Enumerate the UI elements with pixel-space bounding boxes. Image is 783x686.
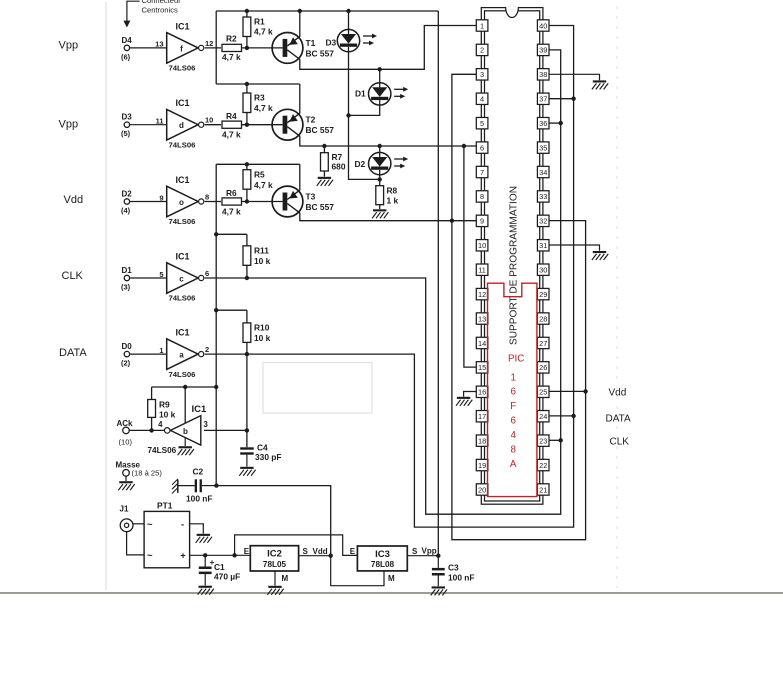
svg-text:4,7 k: 4,7 k — [254, 180, 273, 190]
inverter IC1f — [155, 21, 213, 72]
ground IC1b — [178, 438, 194, 455]
svg-text:Vdd: Vdd — [313, 547, 328, 556]
svg-text:(10): (10) — [119, 438, 133, 447]
svg-text:(3): (3) — [121, 283, 131, 292]
svg-text:R5: R5 — [254, 170, 265, 180]
socket pin 14 — [476, 337, 488, 348]
svg-text:C3: C3 — [448, 563, 459, 573]
wire pin16 to ground — [464, 392, 477, 397]
wire IC3 E feed — [235, 535, 358, 556]
svg-text:b: b — [183, 427, 188, 436]
socket pin 23 — [537, 435, 549, 446]
svg-text:M: M — [282, 574, 289, 583]
svg-text:SUPPORT DE PROGRAMMATION: SUPPORT DE PROGRAMMATION — [509, 186, 520, 345]
svg-text:IC3: IC3 — [375, 549, 390, 560]
svg-text:R2: R2 — [226, 34, 237, 44]
wire D3 cathode column — [349, 52, 380, 180]
ground PT1 — [196, 534, 212, 543]
capacitor C4 — [240, 443, 281, 467]
terminal ACk (10) — [117, 419, 165, 447]
wire d-out — [205, 124, 221, 126]
transformer PT1 — [144, 501, 190, 568]
junction — [346, 113, 350, 117]
svg-text:(6): (6) — [121, 52, 131, 61]
svg-text:8: 8 — [480, 192, 484, 201]
wire C2 to Vdd node — [216, 486, 330, 556]
wire D1 cathode — [349, 105, 380, 115]
svg-text:d: d — [179, 121, 184, 130]
svg-text:78L05: 78L05 — [263, 560, 287, 569]
socket pin 40 — [537, 20, 549, 31]
junction — [378, 177, 382, 181]
svg-text:R1: R1 — [254, 17, 265, 27]
svg-text:74LS06: 74LS06 — [169, 140, 196, 149]
junction — [298, 9, 302, 13]
wire pin25 stub — [549, 390, 585, 392]
svg-text:-: - — [181, 519, 184, 530]
ground C3 — [431, 586, 447, 595]
svg-text:30: 30 — [539, 266, 547, 275]
wire o-out — [205, 201, 221, 203]
label CLK right — [610, 437, 630, 448]
page right faint divider (decorative) — [616, 6, 618, 588]
label PIC char 6 — [510, 416, 516, 427]
svg-text:1 k: 1 k — [387, 196, 399, 206]
junction — [571, 97, 575, 101]
socket pin 33 — [537, 191, 549, 202]
ground pin38 — [592, 80, 608, 89]
wire T2 emitter to d-rail — [299, 84, 301, 113]
socket pin 20 — [476, 484, 488, 495]
svg-text:23: 23 — [539, 436, 547, 445]
wire T1 emitter to top rail — [299, 11, 301, 37]
svg-text:D4: D4 — [122, 36, 133, 45]
svg-text:3: 3 — [480, 70, 484, 79]
svg-text:D2: D2 — [122, 190, 133, 199]
svg-text:5: 5 — [480, 119, 484, 128]
terminal D2 (4) — [121, 190, 167, 216]
svg-text:11: 11 — [478, 266, 486, 275]
socket pin 12 — [476, 288, 488, 299]
wire Vdd rail vertical — [215, 164, 217, 485]
svg-text:21: 21 — [539, 485, 547, 494]
svg-text:IC1: IC1 — [176, 175, 190, 185]
svg-text:IC2: IC2 — [267, 549, 282, 560]
transistor T3 — [242, 186, 335, 217]
ground Masse — [118, 481, 134, 490]
junction — [203, 553, 207, 557]
svg-text:E: E — [244, 547, 250, 556]
socket pin 7 — [476, 166, 488, 177]
wire pin31 to ground — [549, 245, 599, 251]
junction — [559, 438, 563, 442]
wire o-rail — [216, 163, 300, 165]
node Vpp — [436, 554, 440, 558]
socket pin 6 — [476, 142, 488, 153]
svg-text:(5): (5) — [121, 129, 131, 138]
resistor R2 — [222, 34, 242, 63]
svg-text:o: o — [179, 198, 184, 207]
socket pin 31 — [537, 240, 549, 251]
socket pin 39 — [537, 44, 549, 55]
resistor R8 — [376, 179, 399, 209]
svg-text:M: M — [388, 574, 395, 583]
ground R8 — [372, 209, 388, 218]
svg-text:BC 557: BC 557 — [306, 125, 335, 135]
label Vdd right — [609, 388, 627, 399]
svg-text:25: 25 — [539, 388, 547, 397]
svg-text:100 nF: 100 nF — [448, 573, 475, 583]
wire Vpp riser — [437, 11, 439, 556]
svg-text:Centronics: Centronics — [142, 5, 178, 14]
svg-text:33: 33 — [539, 192, 547, 201]
wire f-out — [205, 47, 221, 49]
junction — [245, 162, 249, 166]
svg-text:IC1: IC1 — [176, 98, 190, 108]
junction — [214, 483, 218, 487]
socket pin 3 — [476, 69, 488, 80]
wire R9 top rail — [152, 386, 217, 388]
svg-text:C1: C1 — [214, 562, 225, 572]
svg-text:PT1: PT1 — [157, 501, 173, 511]
svg-text:10: 10 — [205, 116, 213, 125]
svg-text:4,7 k: 4,7 k — [222, 130, 241, 140]
wire T3 emitter to o-rail — [299, 164, 301, 190]
resistor R4 — [222, 111, 242, 140]
svg-text:36: 36 — [539, 119, 547, 128]
regulator IC2 — [244, 546, 299, 571]
svg-text:3: 3 — [204, 420, 209, 429]
socket pin 32 — [537, 215, 549, 226]
junction — [214, 308, 218, 312]
svg-text:13: 13 — [155, 40, 163, 49]
socket pin 24 — [537, 411, 549, 422]
capacitor C1 — [199, 555, 240, 585]
svg-text:4,7 k: 4,7 k — [222, 207, 241, 217]
inverter IC1d — [156, 98, 214, 149]
svg-text:R7: R7 — [332, 152, 343, 162]
label PIC char 4 — [510, 430, 516, 441]
label Vdd (row D2) — [64, 194, 84, 206]
svg-text:S: S — [303, 547, 309, 556]
svg-text:18: 18 — [478, 436, 486, 445]
PIC 16F648A outline — [488, 283, 537, 496]
junction — [245, 82, 249, 86]
wire T2 collector rail to pin 6 — [300, 136, 477, 146]
wire pin37 stub — [549, 98, 573, 100]
socket SUPPORT DE PROGRAMMATION body — [481, 7, 543, 504]
socket pin 35 — [537, 142, 549, 153]
ground IC2 — [267, 586, 283, 595]
junction — [322, 144, 326, 148]
connector J1 — [120, 505, 145, 555]
svg-text:4: 4 — [480, 95, 484, 104]
svg-text:+: + — [180, 551, 186, 562]
svg-text:470 µF: 470 µF — [214, 572, 240, 582]
socket pin 4 — [476, 93, 488, 104]
svg-text:14: 14 — [478, 339, 486, 348]
svg-text:Vdd: Vdd — [609, 388, 627, 399]
junction — [378, 67, 382, 71]
transistor T1 — [242, 33, 335, 64]
socket pin 22 — [537, 459, 549, 470]
socket pin 21 — [537, 484, 549, 495]
svg-text:R11: R11 — [254, 246, 269, 256]
junction — [232, 553, 236, 557]
regulator IC3 — [357, 546, 407, 571]
wire D2 cathode — [379, 175, 381, 180]
svg-text:20: 20 — [478, 485, 486, 494]
svg-text:ACk: ACk — [117, 419, 134, 428]
wire R11 feed — [216, 233, 247, 235]
svg-text:~: ~ — [147, 551, 153, 562]
resistor R1 — [243, 11, 273, 48]
svg-text:f: f — [180, 44, 183, 53]
wire Vdd net pins 3-9-25-32 — [452, 74, 586, 539]
svg-text:12: 12 — [205, 39, 213, 48]
svg-text:74LS06: 74LS06 — [169, 370, 196, 379]
svg-text:32: 32 — [539, 217, 547, 226]
junction — [149, 428, 153, 432]
socket pin 10 — [476, 240, 488, 251]
junction — [245, 46, 249, 50]
socket pin 2 — [476, 44, 488, 55]
svg-text:T1: T1 — [306, 38, 316, 48]
svg-text:28: 28 — [539, 314, 547, 323]
label Vpp (row D3) — [59, 119, 79, 131]
terminal Masse (18 a 25) — [116, 460, 163, 481]
ground pin31 — [592, 251, 608, 260]
wire pin23 stub — [549, 439, 560, 441]
wire CLK from IC1c to pins — [205, 50, 561, 514]
svg-text:74LS06: 74LS06 — [169, 294, 196, 303]
wire T3 collector rail to pin 9 — [300, 213, 477, 221]
inverter IC1o — [159, 175, 209, 226]
resistor R9 — [148, 387, 176, 430]
svg-text:78L08: 78L08 — [371, 560, 395, 569]
svg-text:1: 1 — [510, 372, 515, 383]
svg-text:C2: C2 — [193, 467, 204, 477]
ground C1 — [198, 586, 214, 595]
junction — [378, 144, 382, 148]
svg-text:D1: D1 — [122, 266, 133, 275]
socket pin 26 — [537, 362, 549, 373]
junction — [462, 144, 466, 148]
svg-text:IC1: IC1 — [176, 21, 190, 31]
svg-text:F: F — [510, 401, 516, 412]
socket pin 5 — [476, 117, 488, 128]
wire R10 C4 column — [246, 354, 248, 447]
junction — [214, 232, 218, 236]
svg-text:D3: D3 — [122, 113, 133, 122]
resistor R5 — [243, 164, 273, 201]
LED D2 — [355, 152, 409, 174]
wire IC2 M — [275, 571, 289, 586]
svg-text:(18 à 25): (18 à 25) — [132, 469, 163, 478]
socket pin 8 — [476, 191, 488, 202]
wire D3 top — [348, 11, 350, 29]
svg-text:31: 31 — [539, 241, 547, 250]
wire pin38 to ground — [549, 74, 599, 80]
svg-text:2: 2 — [480, 46, 484, 55]
svg-text:10: 10 — [478, 241, 486, 250]
svg-text:IC1: IC1 — [176, 251, 190, 261]
junction — [245, 352, 249, 356]
terminal D3 (5) — [121, 113, 167, 139]
svg-text:IC1: IC1 — [192, 404, 208, 415]
label DATA right — [606, 414, 632, 425]
wire IC3 M lift — [331, 556, 395, 586]
svg-text:35: 35 — [539, 143, 547, 152]
svg-text:74LS06: 74LS06 — [148, 446, 177, 455]
LED D3 — [326, 29, 378, 51]
svg-text:BC 557: BC 557 — [306, 202, 335, 212]
svg-text:7: 7 — [480, 168, 484, 177]
socket pin 1 — [476, 20, 488, 31]
wire PT1 minus to ground — [190, 524, 204, 534]
svg-text:10 k: 10 k — [159, 410, 176, 420]
svg-text:330 pF: 330 pF — [255, 452, 282, 462]
svg-text:16: 16 — [478, 388, 486, 397]
ground R7 — [317, 177, 333, 186]
socket pin 25 — [537, 386, 549, 397]
junction — [346, 9, 350, 13]
label DATA (row D0) — [59, 347, 87, 359]
svg-text:R3: R3 — [254, 93, 265, 103]
wire IC3 out Vpp — [407, 547, 438, 556]
svg-text:D0: D0 — [122, 342, 133, 351]
capacitor C2 — [172, 467, 216, 504]
svg-text:1: 1 — [480, 21, 484, 30]
svg-text:R4: R4 — [226, 111, 237, 121]
svg-text:19: 19 — [478, 461, 486, 470]
junction — [583, 389, 587, 393]
label PIC char A — [510, 459, 517, 470]
page bottom rule — [0, 592, 783, 594]
socket pin 18 — [476, 435, 488, 446]
wire IC1b vcc stub — [184, 387, 186, 423]
svg-text:D3: D3 — [326, 38, 337, 48]
junction — [245, 9, 249, 13]
svg-text:6: 6 — [510, 416, 516, 427]
resistor R3 — [243, 84, 273, 125]
svg-text:D1: D1 — [355, 89, 366, 99]
svg-text:T2: T2 — [306, 115, 316, 125]
svg-text:9: 9 — [159, 193, 163, 202]
svg-text:(4): (4) — [121, 206, 131, 215]
svg-text:Connecteur: Connecteur — [142, 0, 182, 5]
label PIC char F — [510, 401, 516, 412]
svg-text:6: 6 — [510, 387, 516, 398]
socket pin 11 — [476, 264, 488, 275]
wire left Vpp drop — [215, 11, 217, 84]
capacitor C3 — [432, 556, 475, 587]
svg-text:40: 40 — [539, 21, 547, 30]
inverter IC1c — [159, 251, 209, 302]
svg-text:5: 5 — [159, 270, 163, 279]
svg-text:T3: T3 — [306, 192, 316, 202]
svg-text:(2): (2) — [121, 359, 131, 368]
svg-text:IC1: IC1 — [176, 328, 190, 338]
svg-text:J1: J1 — [120, 505, 129, 514]
svg-text:13: 13 — [478, 314, 486, 323]
svg-text:DATA: DATA — [606, 414, 632, 425]
socket pin 38 — [537, 69, 549, 80]
resistor R6 — [222, 188, 242, 217]
svg-text:A: A — [510, 459, 517, 470]
svg-text:38: 38 — [539, 70, 547, 79]
svg-text:10 k: 10 k — [254, 333, 271, 343]
svg-text:27: 27 — [539, 339, 547, 348]
svg-text:S: S — [412, 547, 418, 556]
wire PT1 plus to IC2 — [190, 554, 251, 556]
wire pin36 stub — [549, 122, 560, 124]
inverter IC1a — [159, 328, 209, 379]
svg-text:4: 4 — [158, 420, 163, 429]
socket pin 30 — [537, 264, 549, 275]
junction — [245, 199, 249, 203]
node Vdd — [329, 554, 333, 558]
socket pin 27 — [537, 337, 549, 348]
wire D1 anode — [379, 69, 381, 82]
svg-text:a: a — [179, 351, 184, 360]
socket pin 17 — [476, 411, 488, 422]
wire D2 anode — [379, 146, 381, 152]
svg-text:4,7 k: 4,7 k — [222, 52, 241, 62]
socket pin 34 — [537, 166, 549, 177]
transistor T2 — [242, 109, 335, 140]
wire pin24 stub — [549, 415, 573, 417]
label PIC char 1 — [510, 372, 515, 383]
junction — [245, 428, 249, 432]
label PIC char 6 — [510, 387, 516, 398]
svg-text:R10: R10 — [254, 323, 270, 333]
wire IC1b output — [204, 429, 247, 431]
socket pin 9 — [476, 215, 488, 226]
socket label — [509, 186, 520, 345]
svg-text:c: c — [179, 275, 184, 284]
svg-text:12: 12 — [478, 290, 486, 299]
socket pin 19 — [476, 459, 488, 470]
svg-text:4: 4 — [510, 430, 516, 441]
svg-text:26: 26 — [539, 363, 547, 372]
svg-text:29: 29 — [539, 290, 547, 299]
svg-text:PIC: PIC — [508, 354, 524, 365]
wire T1 collector — [300, 26, 477, 70]
socket pin 29 — [537, 288, 549, 299]
svg-text:10 k: 10 k — [254, 256, 271, 266]
socket pin 37 — [537, 93, 549, 104]
svg-text:6: 6 — [205, 269, 209, 278]
svg-text:11: 11 — [156, 117, 164, 126]
label PIC — [508, 354, 524, 365]
svg-text:15: 15 — [478, 363, 486, 372]
socket pin 15 — [476, 362, 488, 373]
svg-text:39: 39 — [539, 46, 547, 55]
svg-text:6: 6 — [480, 143, 484, 152]
junction — [214, 385, 218, 389]
socket pin 16 — [476, 386, 488, 397]
page left border (decorative) — [105, 2, 107, 590]
svg-text:8: 8 — [510, 445, 516, 456]
svg-text:680: 680 — [332, 162, 346, 172]
svg-text:BC 557: BC 557 — [306, 48, 335, 58]
svg-text:74LS06: 74LS06 — [169, 64, 196, 73]
wire DATA from IC1a to pins — [205, 26, 574, 528]
junction — [571, 414, 575, 418]
svg-text:R9: R9 — [159, 400, 170, 410]
svg-text:74LS06: 74LS06 — [169, 217, 196, 226]
